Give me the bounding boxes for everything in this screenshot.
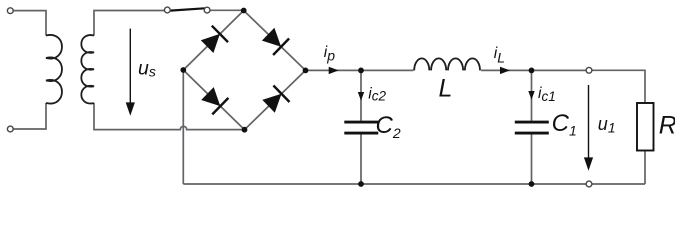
junction C1 bottom <box>529 181 535 187</box>
arrow i_c1 <box>528 91 534 100</box>
svg-text:L: L <box>439 75 453 103</box>
wire bridge arm top-left <box>183 11 243 71</box>
svg-text:ic2: ic2 <box>368 85 386 103</box>
diode D1 top-left arm <box>201 26 228 53</box>
diode D3 bottom-left arm <box>201 87 228 114</box>
junction node right <box>303 68 309 74</box>
svg-text:us: us <box>138 58 156 80</box>
wire bridge arm bottom-left <box>183 70 244 130</box>
terminal primary top <box>7 8 13 14</box>
diode D2 top-right arm <box>262 28 289 55</box>
capacitor C1 plates <box>515 122 549 133</box>
junction node left <box>180 67 186 73</box>
wire secondary bottom to bridge bottom node (with hop) <box>94 103 245 130</box>
svg-text:u1: u1 <box>598 114 616 135</box>
arrow u_1 <box>584 85 593 171</box>
arrow i_L <box>500 67 510 74</box>
wire left node down <box>182 70 184 184</box>
svg-text:ip: ip <box>324 44 335 63</box>
transformer secondary coil W2 <box>81 35 94 103</box>
terminal output top <box>586 67 592 73</box>
switch S (closed) <box>170 8 204 10</box>
wire terminal to top-right corner <box>592 70 645 103</box>
junction node top <box>241 8 247 14</box>
transformer primary coil W1 <box>46 35 62 104</box>
wire inductor to C1 to terminal <box>481 69 586 71</box>
wire bridge arm bottom-right <box>245 70 306 129</box>
svg-text:R: R <box>659 112 675 140</box>
wire switch to bridge top node <box>210 9 244 11</box>
terminal primary bottom <box>7 126 13 132</box>
wire right node to inductor <box>306 69 414 71</box>
junction C2 bottom <box>358 181 364 187</box>
junction C1 top <box>529 68 535 74</box>
terminal output bottom <box>586 181 592 187</box>
svg-text:C1: C1 <box>552 110 577 139</box>
junction node bottom <box>242 127 248 133</box>
svg-text:ic1: ic1 <box>538 85 556 104</box>
wire secondary top to switch <box>94 11 164 36</box>
wire primary bottom <box>13 103 46 129</box>
wire C1 vertical <box>531 70 533 184</box>
wire bottom rail <box>183 183 645 185</box>
svg-text:iL: iL <box>494 45 505 66</box>
wire C2 vertical <box>360 70 362 184</box>
diode D4 bottom-right arm <box>262 86 289 113</box>
svg-text:C2: C2 <box>376 112 401 141</box>
wire resistor bottom to rail <box>644 150 646 184</box>
resistor R box <box>637 103 654 151</box>
inductor L <box>414 58 480 70</box>
junction C2 top <box>358 68 364 74</box>
arrow i_p <box>329 67 339 74</box>
arrow i_c2 <box>358 92 364 101</box>
capacitor C2 plates <box>344 122 378 133</box>
arrow u_s <box>126 29 135 116</box>
wire primary top <box>13 11 46 36</box>
wire bridge arm top-right <box>244 11 306 71</box>
